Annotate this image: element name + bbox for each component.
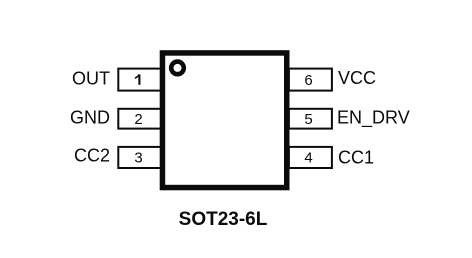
svg-text:3: 3 xyxy=(134,150,142,167)
svg-text:VCC: VCC xyxy=(338,68,376,88)
pin number 1 xyxy=(135,74,140,84)
svg-text:4: 4 xyxy=(304,150,312,167)
pin 6 box xyxy=(289,69,332,91)
pin 3 box xyxy=(118,147,161,168)
pin 2 box xyxy=(118,109,161,129)
pin 4 box xyxy=(289,147,332,168)
svg-text:5: 5 xyxy=(304,111,312,128)
svg-text:SOT23-6L: SOT23-6L xyxy=(179,209,268,230)
pin 1 box xyxy=(118,69,161,91)
svg-text:2: 2 xyxy=(134,111,142,128)
IC body U1 xyxy=(162,53,286,188)
pin-1 indicator circle xyxy=(171,62,184,75)
svg-text:CC2: CC2 xyxy=(74,146,110,166)
svg-text:6: 6 xyxy=(304,72,312,89)
svg-text:EN_DRV: EN_DRV xyxy=(337,108,410,129)
svg-text:CC1: CC1 xyxy=(338,148,374,168)
svg-text:OUT: OUT xyxy=(72,69,110,89)
svg-text:GND: GND xyxy=(70,108,110,128)
pin 5 box xyxy=(289,109,332,129)
